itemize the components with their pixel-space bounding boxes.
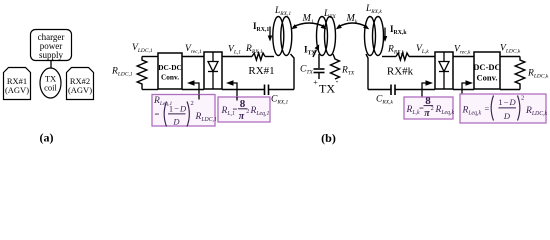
svg-text:Conv.: Conv. <box>476 73 497 83</box>
diode D1 <box>208 52 218 89</box>
RX#1 (AGV) box <box>4 68 31 100</box>
svg-text:RX#1: RX#1 <box>248 65 274 77</box>
resistor R_RX,1 (horizontal zigzag) <box>252 53 265 60</box>
wire C_RX,1 to rectifier bottom <box>222 89 265 91</box>
svg-text:(AGV): (AGV) <box>68 85 92 95</box>
inductor L_RX,k coil <box>365 17 384 56</box>
charger power supply box <box>31 30 72 61</box>
annotation arrow R_L,1 pointing left <box>226 80 237 100</box>
current arrow I_RX,1 down <box>268 27 273 42</box>
current arrow I_RX,k down <box>383 28 388 43</box>
coupling arrow M_1 <box>291 23 327 29</box>
wire R_LDC,1 top to DC-DC <box>142 56 158 58</box>
DC-DC converter box Uk <box>473 52 500 89</box>
wire coil L_RX,k left down <box>366 54 368 90</box>
wire DC-DC k to R_LDC,k top <box>500 56 520 58</box>
svg-text:(b): (b) <box>321 131 336 145</box>
svg-text:8: 8 <box>240 98 246 110</box>
DC-DC converter box U1 <box>158 53 182 89</box>
wire R_LDC,1 bottom to DC-DC <box>142 89 158 91</box>
svg-text:D: D <box>503 111 511 121</box>
TX coil ellipse <box>40 68 61 98</box>
svg-text:2: 2 <box>521 95 524 102</box>
svg-text:8: 8 <box>425 95 431 107</box>
svg-text:+: + <box>313 78 318 87</box>
svg-text:D: D <box>172 117 180 127</box>
rectifier box Dk <box>435 52 453 89</box>
wire DC-DC to rectifier top <box>182 56 204 58</box>
resistor R_LDC,k (vertical zigzag) <box>515 57 525 90</box>
svg-text:Conv.: Conv. <box>161 73 179 82</box>
annotation arrow R_Leq,1 pointing left <box>187 80 199 98</box>
wire supply to TX coil <box>50 61 52 69</box>
svg-text:1−D: 1−D <box>498 97 516 107</box>
svg-text:DC-DC: DC-DC <box>158 63 182 72</box>
svg-text:2: 2 <box>191 100 194 107</box>
wire coil L_RX,1 down right side <box>291 54 295 90</box>
wire rectifier to R_RX,1 <box>222 56 252 58</box>
wire stub into box R_Leq,1 <box>198 95 200 100</box>
coupling arrow M_k <box>336 23 370 29</box>
resistor R_RX,k (horizontal zigzag) <box>396 53 409 60</box>
resistor R_TX (vertical zigzag) <box>331 54 340 79</box>
current arrow I_TX up-right <box>313 44 319 57</box>
svg-text:=: = <box>233 104 238 114</box>
annotation arrow R_L,k pointing right <box>422 80 433 97</box>
wire bottom rail RX1 right <box>269 89 295 91</box>
svg-text:π: π <box>424 108 430 119</box>
svg-text:=: = <box>485 104 490 114</box>
svg-text:2: 2 <box>246 109 249 115</box>
wire DC-DC k to R_LDC,k bottom <box>500 89 520 91</box>
capacitor C_RX,1 <box>265 85 269 96</box>
svg-text:1−D: 1−D <box>169 104 187 114</box>
formula box R_L,k <box>404 95 454 119</box>
diode Dk <box>439 52 449 89</box>
wire rectifier k to DC-DC k top <box>453 56 474 58</box>
svg-text:π: π <box>239 111 245 122</box>
formula box R_Leq,k <box>460 94 548 123</box>
svg-text:(a): (a) <box>40 131 54 145</box>
svg-text:=: = <box>155 109 160 119</box>
capacitor C_RX,k <box>391 85 395 96</box>
wire R_RX,k to rectifier k <box>409 56 435 58</box>
wire L_TX left down <box>318 54 320 68</box>
formula box R_L,1 <box>218 97 270 122</box>
annotation arrow R_Leq,k pointing right <box>462 80 473 95</box>
svg-text:coil: coil <box>44 83 57 93</box>
wire coil L_RX,k to R_RX,k <box>382 56 396 58</box>
svg-text:(AGV): (AGV) <box>5 85 29 95</box>
RX#2 (AGV) box <box>67 68 94 100</box>
svg-text:TX: TX <box>319 82 335 96</box>
capacitor C_TX <box>314 69 325 79</box>
inductor L_TX coil <box>317 17 336 56</box>
svg-text:RX#k: RX#k <box>387 66 414 78</box>
resistor R_LDC,1 (vertical zigzag) <box>137 57 147 90</box>
rectifier box D1 <box>204 52 222 89</box>
svg-text:supply: supply <box>39 50 64 60</box>
formula box R_Leq,1 <box>152 95 217 127</box>
svg-text:2: 2 <box>431 106 434 112</box>
wire stub into box R_L,1 <box>236 97 238 101</box>
wire R_RX,1 to coil <box>265 56 274 58</box>
wire bottom rail RXk left <box>368 89 391 91</box>
inductor L_RX,1 coil <box>273 17 292 56</box>
wire DC-DC to rectifier bottom <box>182 89 204 91</box>
wire rectifier k to DC-DC k bottom <box>453 89 474 91</box>
svg-text:DC-DC: DC-DC <box>473 62 500 72</box>
wire C_RX,k to rectifier k bottom <box>395 89 435 91</box>
